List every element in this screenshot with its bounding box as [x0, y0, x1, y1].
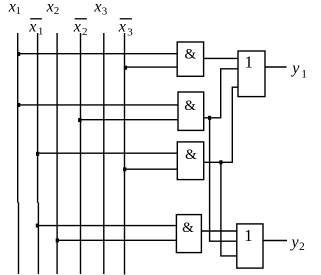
net x2 vertical line [56, 33, 58, 274]
svg-text:1: 1 [244, 53, 253, 72]
AND gate D4 box [176, 215, 201, 253]
svg-text:x: x [46, 0, 54, 16]
OR gate D5 box [238, 51, 265, 97]
svg-text:1: 1 [301, 69, 307, 81]
wire: AND D4 output to OR D6 input 1 [201, 230, 236, 232]
net x1 vertical line [17, 33, 19, 203]
AND gate D1 box [177, 42, 203, 76]
svg-text:3: 3 [102, 5, 108, 17]
wire W5: NOT x1 to AND gate D3 input 1 [38, 152, 178, 154]
svg-text:x: x [93, 0, 101, 16]
junction: NOT x3 / W2 [124, 66, 127, 70]
wire W3: x1 to AND gate D2 input 1 [18, 104, 178, 106]
net NOT x2 vertical line [80, 33, 82, 274]
junction: NOT x2 / W4 [78, 118, 81, 122]
net NOT x1 vertical line [37, 33, 39, 203]
wire: AND D1 output to OR D5 input 1 [204, 57, 238, 59]
svg-text:x: x [73, 19, 81, 36]
junction: NOT x1 / W5 [36, 152, 39, 156]
overbar of NOT x2 [75, 18, 87, 20]
wire W6: NOT x3 to AND gate D3 input 2 [125, 168, 178, 170]
junction: AND D3 output branch [219, 160, 222, 164]
junction: AND D2 output branch [208, 116, 211, 120]
wire: AND D3 output, up to OR D5 input 3 [204, 87, 238, 162]
net NOT x3 vertical line [124, 33, 126, 275]
wire W7: NOT x1 to AND gate D4 input 1 [38, 225, 177, 227]
svg-text:2: 2 [54, 5, 60, 17]
svg-text:2: 2 [82, 26, 88, 38]
net x3 vertical line [103, 33, 105, 274]
svg-text:&: & [184, 98, 196, 114]
junction: NOT x1 / W7 [36, 224, 39, 228]
svg-text:x: x [28, 19, 36, 36]
wire W4: NOT x2 to AND gate D2 input 2 [81, 119, 179, 121]
wire W1: x1 to AND gate D1 input 1 [18, 53, 178, 55]
AND gate D3 box [177, 142, 203, 180]
wire: AND D2 output, up to OR D5 input 2 [204, 69, 238, 118]
svg-text:x: x [118, 19, 126, 36]
OR gate D6 box [237, 224, 263, 268]
wire: branch of AND D2 output down to OR D6 input 2 [210, 118, 237, 241]
AND gate D2 box [178, 92, 204, 130]
wire W8: x2 to AND gate D4 input 2 [57, 239, 176, 241]
junction: x2 / W8 [56, 238, 59, 242]
svg-text:3: 3 [127, 27, 133, 39]
junction: NOT x3 / W6 [123, 167, 126, 171]
svg-text:&: & [182, 220, 194, 236]
junction: x1 / W3 [17, 103, 20, 107]
svg-text:y: y [290, 234, 300, 251]
wire: branch of AND D3 output down to OR D6 input 3 [221, 162, 237, 256]
svg-text:&: & [184, 47, 196, 63]
svg-text:1: 1 [244, 226, 253, 245]
svg-text:2: 2 [299, 241, 305, 253]
wire: OR D6 output y2 [263, 240, 287, 242]
svg-text:1: 1 [16, 5, 22, 17]
overbar of NOT x3 [120, 18, 132, 20]
svg-text:1: 1 [38, 26, 44, 38]
svg-text:y: y [290, 60, 300, 77]
wire W2: NOT x3 to AND gate D1 input 2 [125, 66, 178, 68]
wire: OR D5 output y1 [265, 66, 287, 68]
junction: x1 / W1 [17, 52, 20, 56]
svg-text:&: & [185, 147, 197, 163]
overbar of NOT x1 [30, 18, 42, 20]
